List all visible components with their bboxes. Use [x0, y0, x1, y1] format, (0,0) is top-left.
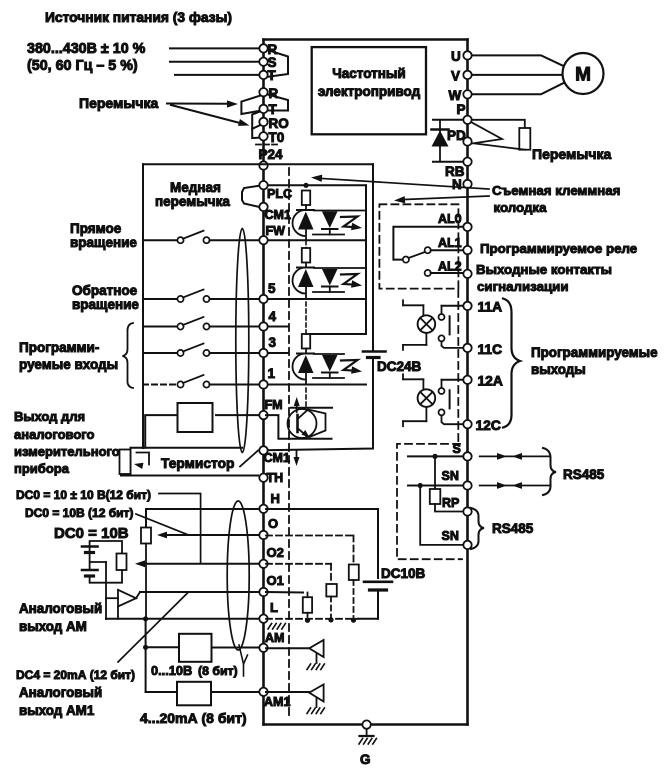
svg-text:вращение: вращение — [70, 235, 137, 250]
svg-text:Обратное: Обратное — [72, 283, 138, 298]
optocoupler FW row with resistor — [293, 191, 367, 241]
svg-text:SN: SN — [442, 529, 459, 543]
label jumper right — [532, 146, 611, 162]
leader DC0 A — [159, 494, 201, 564]
svg-text:T0: T0 — [269, 130, 285, 145]
junction dot PLC-resistor — [303, 183, 308, 188]
svg-text:перемычка: перемычка — [155, 194, 230, 209]
wire O2 dashed ext — [266, 564, 331, 584]
wire bottom bus — [264, 723, 468, 726]
brace RS485 upper — [543, 448, 556, 495]
leader to shield line — [311, 175, 489, 189]
meter box FM — [178, 403, 213, 432]
wire H to DC10B — [266, 509, 378, 578]
terminal FW — [259, 236, 267, 244]
block outline top — [143, 163, 373, 165]
opamp AM — [106, 590, 140, 619]
terminal PD — [447, 128, 472, 146]
switch row 5 (reverse) — [143, 290, 260, 303]
relay contact AL1 — [425, 247, 464, 253]
svg-text:Программируемые: Программируемые — [531, 345, 658, 360]
terminal L — [259, 600, 278, 623]
svg-text:PD: PD — [447, 128, 466, 143]
terminal S — [453, 442, 472, 461]
relay dashed box — [379, 204, 458, 288]
resistor O2 load — [326, 584, 337, 617]
terminal N — [452, 177, 472, 192]
terminal 1 — [259, 366, 275, 389]
wire 3 stub — [266, 352, 288, 354]
svg-text:аналогового: аналогового — [14, 427, 95, 442]
transistor FM — [288, 409, 326, 438]
wire O dashed ext — [266, 536, 354, 565]
terminal 12A — [463, 374, 503, 389]
svg-text:RO: RO — [269, 116, 289, 131]
label thermistor — [161, 456, 234, 471]
svg-text:Частотный: Частотный — [332, 66, 405, 81]
terminal S — [259, 55, 276, 70]
block outline left — [142, 164, 144, 448]
terminal AL2 — [438, 260, 472, 278]
RS485 dashed box — [397, 444, 462, 559]
svg-text:G: G — [360, 752, 371, 767]
dashed rail outputs — [457, 290, 459, 444]
svg-text:11C: 11C — [478, 342, 503, 357]
leader to relay box — [394, 196, 489, 203]
thermistor body — [120, 448, 150, 476]
rs485 pair SN — [480, 482, 549, 489]
label reverse rotation — [72, 283, 139, 312]
svg-text:P: P — [457, 102, 466, 117]
terminal CM1a — [259, 203, 291, 222]
label programmable relay — [480, 241, 637, 256]
svg-text:сигнализации: сигнализации — [477, 279, 569, 294]
leader DC4 label — [118, 593, 188, 663]
wire to R — [170, 47, 260, 49]
battery DC10B — [364, 566, 426, 619]
svg-text:V: V — [451, 69, 460, 84]
terminal AM1 — [259, 688, 290, 709]
svg-text:руемые входы: руемые входы — [19, 357, 118, 372]
svg-text:AM1: AM1 — [264, 695, 290, 709]
resistor O load — [349, 565, 359, 618]
terminal 4 — [259, 309, 276, 331]
terminal T2 — [259, 102, 277, 117]
terminal 11A — [463, 300, 502, 315]
label analog output AM — [19, 601, 102, 634]
terminal RO — [259, 116, 288, 131]
svg-text:CM1: CM1 — [264, 451, 290, 465]
terminal 11C — [463, 342, 502, 357]
svg-text:Прямое: Прямое — [70, 221, 122, 236]
battery DC24B — [363, 352, 422, 375]
label analog meter output — [14, 409, 120, 476]
wire SN — [408, 483, 464, 488]
wire O1 ext — [266, 592, 308, 597]
svg-text:Термистор: Термистор — [161, 456, 234, 471]
bipolar source DC0 — [82, 541, 122, 619]
terminal P24 — [259, 147, 284, 170]
resistor O2 input — [117, 554, 127, 571]
terminal G — [362, 720, 370, 728]
brace RS485 lower — [471, 508, 484, 549]
terminal FM — [259, 398, 282, 419]
svg-text:3: 3 — [269, 335, 277, 350]
wire 4 stub — [266, 326, 288, 328]
svg-text:12C: 12C — [476, 418, 501, 433]
svg-text:RS485: RS485 — [563, 467, 605, 482]
terminal AM — [259, 631, 284, 652]
svg-text:AL2: AL2 — [438, 260, 462, 274]
wire thermistor bottom rail — [121, 475, 258, 477]
dashed link opto1 to R2 — [305, 241, 307, 249]
label output contacts — [476, 262, 612, 294]
svg-text:H: H — [271, 491, 280, 506]
wire inner rail — [365, 185, 367, 334]
arrow down CM1 — [294, 451, 300, 467]
label RS485 lower — [492, 521, 534, 536]
wire U to motor — [472, 55, 564, 66]
terminal AL1 — [438, 236, 472, 254]
buffer AM1 — [266, 684, 324, 713]
wire P — [433, 119, 464, 121]
svg-text:DC10B: DC10B — [381, 566, 426, 581]
motor M — [563, 53, 604, 94]
resistor O1 load — [303, 597, 312, 617]
label FW — [266, 224, 286, 238]
svg-text:11A: 11A — [478, 300, 503, 315]
wire W to motor — [472, 83, 564, 94]
wire FM to meter — [216, 414, 260, 416]
label H — [271, 491, 280, 506]
terminal 3 — [259, 335, 276, 357]
terminal T — [259, 68, 276, 83]
svg-text:FM: FM — [265, 398, 283, 412]
svg-text:Перемычка: Перемычка — [532, 146, 611, 162]
jumper P-PD resistor — [470, 120, 530, 150]
dashed link opto2 to R3 — [305, 302, 307, 334]
wire AL0 — [393, 227, 463, 260]
wire H feed — [146, 509, 260, 535]
svg-text:DC24В: DC24В — [377, 359, 422, 374]
label frequency — [27, 58, 138, 74]
jumper loop PLC-CM1 — [242, 186, 261, 208]
diode brake — [432, 120, 449, 162]
svg-text:T: T — [268, 68, 277, 83]
svg-text:5: 5 — [268, 281, 276, 296]
wire thermistor to CM1 — [240, 451, 258, 467]
svg-text:CM1: CM1 — [265, 208, 291, 222]
resistor RP — [430, 456, 464, 511]
terminal SN2 — [442, 529, 472, 549]
wire O1 — [140, 591, 260, 593]
jumper P-PD loop — [471, 122, 502, 144]
svg-text:DC4 = 20mА (12 бит): DC4 = 20mА (12 бит) — [16, 668, 135, 682]
svg-text:Аналоговый: Аналоговый — [19, 685, 102, 700]
terminal W — [449, 88, 472, 103]
label power source — [45, 10, 232, 25]
input ellipse shield — [236, 229, 249, 453]
terminal R — [259, 42, 277, 57]
DAC box 4-20mA — [146, 682, 260, 706]
wire left bus — [262, 40, 265, 725]
svg-text:прибора: прибора — [14, 461, 70, 476]
switch FW (forward) — [143, 231, 260, 244]
wire O2 with arrow — [135, 560, 260, 567]
jumper loop T2-RO-T0 left — [252, 111, 261, 138]
svg-text:O: O — [268, 516, 278, 531]
wire meter left down — [145, 415, 177, 448]
label voltage — [27, 41, 146, 57]
terminal V — [451, 69, 472, 84]
leader arrow to jumper A — [167, 100, 238, 107]
wire V to motor — [472, 74, 563, 76]
svg-text:R: R — [269, 86, 279, 101]
svg-text:Источник питания (3 фазы): Источник питания (3 фазы) — [45, 10, 232, 25]
svg-text:380...430В ± 10 %: 380...430В ± 10 % — [27, 41, 146, 57]
switch row 4 — [143, 317, 260, 330]
svg-text:измерительного: измерительного — [14, 444, 120, 459]
svg-text:AL0: AL0 — [438, 212, 462, 226]
terminal O — [259, 516, 278, 539]
resistor H — [141, 528, 151, 619]
terminal 5 — [259, 281, 276, 303]
svg-text:RP: RP — [442, 496, 459, 510]
svg-text:(50, 60 Гц – 5 %): (50, 60 Гц – 5 %) — [27, 58, 138, 74]
label jumper left — [79, 95, 158, 111]
label removable block — [492, 183, 620, 215]
switch row 1 — [143, 375, 260, 388]
ground at L — [268, 624, 285, 630]
svg-text:O1: O1 — [267, 573, 284, 588]
wire rail to resistor R3 top — [306, 333, 366, 335]
terminal U — [451, 49, 472, 64]
svg-text:TH: TH — [267, 471, 284, 485]
wire right bus — [466, 40, 469, 725]
svg-text:FW: FW — [266, 224, 286, 238]
label G — [360, 752, 371, 767]
svg-text:S: S — [453, 442, 461, 456]
wire thermistor top rail — [131, 447, 243, 449]
wire down to DAC boxes — [143, 619, 148, 692]
leader arrow to jumper B — [171, 105, 250, 126]
wire SN2 — [420, 486, 463, 545]
terminal CM1b — [259, 446, 290, 465]
buffer AM — [266, 640, 324, 670]
wire top bus — [264, 38, 468, 41]
svg-text:12A: 12A — [478, 374, 503, 389]
relay lever — [403, 252, 426, 263]
shield dashed line — [288, 168, 290, 717]
svg-text:выход АМ: выход АМ — [19, 619, 87, 634]
dashed link opto3 down — [305, 388, 307, 409]
svg-text:W: W — [449, 88, 462, 103]
switch row 3 — [143, 344, 260, 357]
terminal T0 — [259, 130, 284, 145]
wire outer rail down — [372, 164, 374, 351]
terminal R2 — [259, 86, 278, 101]
svg-text:Программируемое реле: Программируемое реле — [480, 241, 637, 256]
svg-text:Выходные контакты: Выходные контакты — [476, 262, 612, 277]
svg-text:Программи-: Программи- — [19, 340, 99, 355]
svg-text:4...20mА (8 бит): 4...20mА (8 бит) — [140, 710, 247, 726]
wire FM circuit — [266, 408, 332, 439]
jumper loop R2-T2 left — [241, 95, 261, 114]
svg-text:Перемычка: Перемычка — [79, 95, 158, 111]
dashed separator above P24 — [256, 144, 280, 146]
terminal SN — [442, 469, 472, 490]
terminal O1 — [259, 573, 284, 596]
svg-text:Выход для: Выход для — [14, 409, 85, 424]
svg-text:U: U — [451, 49, 461, 64]
optocoupler row5 with resistor — [293, 248, 367, 298]
svg-text:выход АМ1: выход АМ1 — [19, 703, 95, 718]
output contact lamp 12 — [403, 374, 464, 426]
terminal RB — [445, 158, 472, 180]
svg-text:P24: P24 — [259, 147, 284, 162]
ground symbol G — [359, 729, 376, 744]
svg-text:AM: AM — [265, 631, 284, 645]
brace inputs — [123, 323, 134, 388]
brace outputs — [503, 299, 520, 428]
arrow up FM — [294, 397, 300, 412]
label DC4 20mA — [16, 668, 135, 682]
svg-text:электропривод: электропривод — [318, 84, 421, 99]
svg-text:M: M — [575, 65, 591, 86]
svg-text:T: T — [269, 102, 278, 117]
svg-text:O2: O2 — [267, 545, 284, 560]
svg-text:Аналоговый: Аналоговый — [19, 601, 102, 616]
terminal TH — [259, 471, 283, 485]
label analog output AM1 — [19, 685, 102, 718]
svg-text:N: N — [452, 177, 462, 192]
DAC box 0-10V — [146, 634, 260, 662]
label RS485 upper — [563, 467, 605, 482]
label 0-10V — [151, 663, 238, 678]
svg-text:(8 бит): (8 бит) — [198, 664, 238, 678]
wire 1 to opto — [266, 384, 366, 386]
svg-text:вращение: вращение — [72, 297, 139, 312]
svg-text:L: L — [270, 600, 278, 615]
wire RB — [433, 161, 464, 163]
label DC0 12bit A — [16, 488, 151, 502]
label 4-20mA — [140, 710, 247, 726]
svg-text:колодка: колодка — [494, 200, 548, 215]
label programmable outputs — [531, 345, 658, 377]
wire 5 to opto — [266, 298, 366, 300]
frequency drive box U0 — [312, 47, 426, 134]
wire PLC rail — [266, 184, 366, 186]
jumper loop R2-T2 right — [266, 94, 288, 111]
wire O with arrow — [157, 532, 260, 539]
svg-text:0...10В: 0...10В — [151, 663, 192, 678]
wire FW to opto — [266, 239, 366, 241]
wire L rail — [106, 616, 260, 621]
svg-text:4: 4 — [269, 309, 277, 324]
wire to S — [170, 61, 260, 63]
rs485 pair S — [480, 453, 549, 460]
wire L dashed extension — [266, 617, 378, 623]
wire S — [408, 454, 464, 459]
relay contact AL2 — [425, 270, 464, 276]
label DC0 10V — [54, 525, 129, 542]
svg-text:Медная: Медная — [170, 180, 221, 195]
label forward rotation — [70, 221, 137, 250]
terminal P — [457, 102, 472, 124]
terminal AL0 — [438, 212, 472, 231]
terminal 12C — [463, 418, 501, 433]
svg-text:DC0 = 10В: DC0 = 10В — [54, 525, 129, 542]
svg-text:выходы: выходы — [531, 362, 586, 377]
label DC0 12bit B — [25, 506, 133, 520]
wire to T — [175, 74, 260, 76]
analog ellipse shield — [227, 501, 249, 676]
svg-text:AL1: AL1 — [438, 236, 462, 250]
terminal O2 — [259, 545, 284, 568]
leader DC0 B — [136, 514, 189, 535]
wire DC24B to CM1 return — [266, 358, 373, 450]
terminal H — [259, 505, 267, 513]
optocoupler row1 with resistor — [293, 334, 363, 384]
terminal PLC — [259, 181, 292, 201]
svg-text:SN: SN — [442, 469, 459, 483]
label programmable inputs — [19, 340, 118, 372]
svg-text:DC0 = 10В (12 бит): DC0 = 10В (12 бит) — [25, 506, 133, 520]
svg-text:1: 1 — [268, 366, 276, 381]
label copper jumper — [155, 180, 230, 209]
output contact lamp 11 — [403, 300, 464, 350]
jumper loop R-T right — [266, 49, 289, 77]
svg-text:DC0 = 10 ± 10 В(12 бит): DC0 = 10 ± 10 В(12 бит) — [16, 488, 151, 502]
terminal RP — [442, 496, 472, 516]
svg-text:Съемная клеммная: Съемная клеммная — [492, 183, 620, 198]
svg-text:RS485: RS485 — [492, 521, 534, 536]
